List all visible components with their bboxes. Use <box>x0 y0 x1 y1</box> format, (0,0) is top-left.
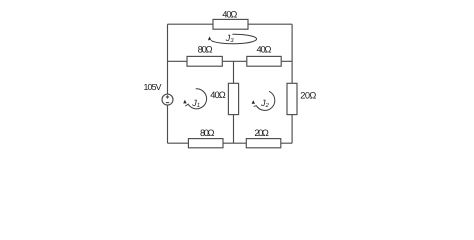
svg-text:105V: 105V <box>144 82 162 92</box>
svg-text:80Ω: 80Ω <box>200 128 215 138</box>
svg-text:40Ω: 40Ω <box>257 44 272 54</box>
svg-text:J1: J1 <box>191 98 200 109</box>
svg-text:40Ω: 40Ω <box>210 90 226 100</box>
svg-text:20Ω: 20Ω <box>300 91 316 101</box>
svg-text:40Ω: 40Ω <box>222 9 237 19</box>
svg-text:80Ω: 80Ω <box>198 44 213 54</box>
svg-text:J2: J2 <box>260 98 270 109</box>
svg-text:20Ω: 20Ω <box>254 128 269 138</box>
